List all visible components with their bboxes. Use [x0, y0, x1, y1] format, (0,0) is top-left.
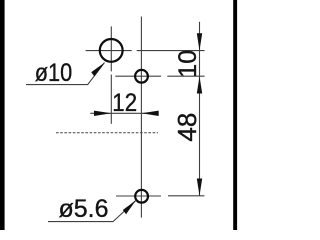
- arrow right to x=111.3 (12 dim left): [94, 111, 111, 116]
- top small hole circle: [135, 70, 148, 83]
- top small hole horizontal crosshair: [115, 75, 161, 77]
- vertical dimension line for 10 and 48: [199, 22, 201, 196]
- horizontal dash-dot centerline: [56, 132, 158, 134]
- leader line for ø5.6: [48, 200, 136, 221]
- big hole circle ø10: [100, 39, 123, 62]
- big hole vertical crosshair / extension line for 12 dim: [110, 26, 112, 71]
- right photo edge bar: [233, 0, 237, 230]
- svg-text:ø5.6: ø5.6: [59, 195, 109, 223]
- extension line right of top small hole: [167, 75, 204, 77]
- leader line for ø10: [26, 63, 105, 85]
- 12 dimension line: [90, 112, 158, 114]
- arrow down to y=50.6 (10 dim top): [197, 33, 202, 50]
- svg-text:10: 10: [174, 50, 202, 78]
- main vertical centerline through both small holes: [140, 17, 142, 218]
- extension line below big hole for 12 dim: [110, 75, 112, 124]
- left photo edge bar: [0, 0, 5, 230]
- arrow up to y=76.2 (10 dim bottom / 48 dim top): [197, 76, 202, 93]
- arrow left to x=141.4 (12 dim right): [141, 111, 158, 116]
- extension line right of big hole (10 dim upper): [137, 50, 205, 52]
- leader arrow ø10: [91, 63, 104, 77]
- bottom hole horizontal crosshair: [116, 195, 161, 197]
- bottom hole circle ø5.6: [135, 190, 148, 203]
- svg-text:48: 48: [172, 113, 202, 142]
- big hole horizontal crosshair: [86, 50, 132, 52]
- svg-text:12: 12: [112, 89, 137, 117]
- extension line right of bottom hole: [168, 195, 204, 197]
- arrow down to y=195.8 (48 dim bottom): [197, 179, 202, 196]
- svg-text:ø10: ø10: [35, 59, 72, 87]
- leader arrow ø5.6: [123, 200, 136, 214]
